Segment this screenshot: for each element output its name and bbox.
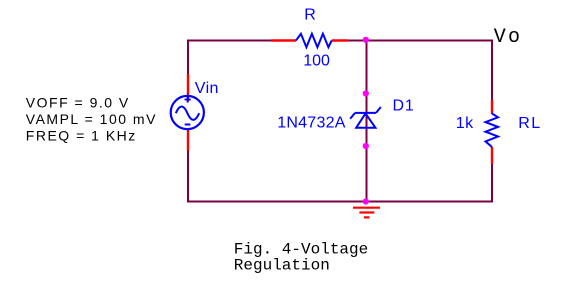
svg-text:Vin: Vin	[195, 80, 219, 97]
svg-text:1N4732A: 1N4732A	[277, 114, 346, 131]
svg-text:Vo: Vo	[494, 26, 522, 49]
svg-text:VOFF = 9.0 V: VOFF = 9.0 V	[26, 95, 130, 111]
svg-text:Regulation: Regulation	[234, 257, 330, 275]
svg-text:1k: 1k	[456, 115, 474, 132]
svg-text:R: R	[304, 7, 316, 24]
svg-text:Fig. 4-Voltage: Fig. 4-Voltage	[234, 240, 368, 258]
svg-text:FREQ = 1 KHz: FREQ = 1 KHz	[26, 128, 137, 144]
svg-text:D1: D1	[393, 97, 415, 114]
svg-text:VAMPL = 100 mV: VAMPL = 100 mV	[26, 111, 157, 127]
svg-text:100: 100	[303, 53, 330, 70]
svg-text:RL: RL	[518, 115, 541, 132]
